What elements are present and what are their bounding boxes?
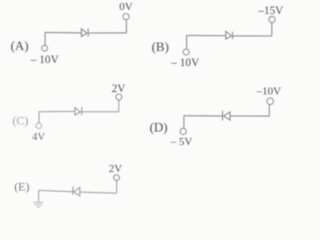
svg-text:–15V: –15V: [257, 5, 284, 17]
circuit B wire segment diode to right corner: [233, 35, 272, 37]
svg-text:0V: 0V: [119, 1, 133, 13]
terminal E right: [114, 175, 120, 181]
circuit A wire left vertical: [44, 32, 46, 45]
circuit C wire left vertical: [38, 112, 40, 123]
svg-text:– 10V: – 10V: [170, 57, 200, 69]
svg-text:(E): (E): [14, 180, 29, 194]
diode D(E) cathode bar: [72, 186, 74, 195]
terminal B left: [183, 49, 189, 55]
terminal D left: [180, 128, 186, 134]
terminal B right: [269, 16, 275, 22]
circuit A wire top horizontal: [45, 31, 81, 34]
circuit E wire right vertical: [116, 181, 118, 194]
circuit D wire segment diode to right corner: [230, 115, 269, 117]
ground symbol: [33, 202, 43, 207]
circuit B wire top horizontal: [187, 34, 226, 36]
svg-text:4V: 4V: [32, 131, 45, 143]
diode D(B) triangle: [226, 31, 232, 39]
diode D(C) cathode bar: [81, 107, 83, 115]
terminal D right: [267, 98, 274, 105]
svg-text:– 5V: – 5V: [170, 136, 193, 148]
svg-text:–10V: –10V: [256, 85, 282, 97]
diode D(C) triangle: [75, 108, 81, 115]
svg-text:2V: 2V: [112, 83, 126, 95]
terminal C left: [36, 123, 42, 129]
svg-text:(C): (C): [12, 114, 28, 128]
circuit E wire segment diode to right corner: [80, 192, 117, 193]
circuit C wire right vertical: [118, 100, 120, 112]
svg-text:(B): (B): [152, 39, 169, 54]
diode D(E) triangle: [74, 188, 80, 196]
circuit B wire left vertical: [186, 35, 188, 49]
terminal A left: [42, 45, 48, 51]
diode D(B) cathode bar: [232, 32, 234, 39]
circuit A wire right vertical: [125, 20, 127, 33]
diode D(A) triangle: [81, 29, 87, 37]
diode D(D) cathode bar: [222, 111, 224, 121]
circuit D wire top horizontal: [184, 115, 223, 117]
terminal A right: [123, 14, 129, 20]
circuit D wire right vertical: [268, 105, 270, 116]
svg-text:– 10V: – 10V: [30, 54, 60, 66]
diode D(A) cathode bar: [87, 28, 89, 36]
circuit D wire left vertical: [183, 116, 185, 129]
circuit E wire ground vertical: [38, 190, 40, 201]
diode D(D) triangle: [224, 112, 230, 120]
circuit B wire right vertical: [271, 23, 273, 36]
svg-text:(D): (D): [150, 120, 168, 135]
terminal C right: [116, 94, 122, 100]
svg-text:2V: 2V: [109, 163, 122, 175]
circuit A wire segment diode to right corner: [88, 32, 126, 34]
circuit C wire segment diode to right corner: [82, 111, 119, 113]
svg-text:(A): (A): [11, 38, 29, 53]
circuit E wire horizontal: [39, 190, 73, 191]
circuit C wire top horizontal: [39, 110, 75, 112]
